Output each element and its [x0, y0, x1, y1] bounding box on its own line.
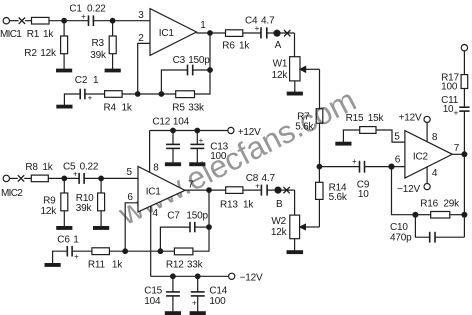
node output IC1a — [208, 31, 213, 36]
svg-text:+: + — [192, 299, 197, 308]
label C5 0.22 — [63, 161, 99, 172]
label C1 0.22 — [69, 3, 106, 14]
wire C9 to pin6 — [365, 166, 405, 168]
label R2 12k — [24, 48, 57, 59]
capacitor C1 — [89, 15, 94, 26]
wire pin4 IC1b — [150, 206, 152, 276]
svg-text:R15: R15 — [346, 113, 364, 124]
wire pin2 — [138, 43, 150, 94]
svg-text:2: 2 — [138, 33, 144, 44]
svg-text:+12V: +12V — [399, 112, 422, 123]
svg-text:R13: R13 — [220, 200, 238, 211]
wire C1 to pin3 — [93, 20, 150, 22]
resistor R13 — [226, 187, 243, 194]
svg-text:1k: 1k — [112, 260, 123, 271]
wire C4 to W1 — [267, 32, 295, 34]
wire pin6 — [125, 203, 138, 251]
wire R6 to C4 — [243, 32, 261, 34]
svg-text:R3: R3 — [92, 38, 105, 49]
resistor R2 — [61, 21, 68, 69]
svg-text:12k: 12k — [40, 48, 57, 59]
ground (R3) — [105, 69, 120, 72]
connector X (MIC1) — [19, 18, 25, 24]
label R9 12k — [40, 195, 57, 217]
svg-text:470p: 470p — [390, 232, 412, 243]
svg-text:7: 7 — [188, 179, 194, 190]
ground (R15) — [336, 142, 351, 145]
svg-text:+: + — [454, 108, 459, 117]
svg-text:MIC2: MIC2 — [1, 188, 23, 199]
wire C10 loop left — [415, 215, 429, 238]
capacitor C9 — [360, 161, 365, 173]
svg-text:R9: R9 — [43, 195, 56, 206]
svg-text:C7: C7 — [167, 210, 180, 221]
svg-text:+: + — [199, 136, 204, 145]
ground (C13) — [190, 163, 205, 166]
node pin6 IC2 — [389, 164, 394, 169]
svg-text:W2: W2 — [271, 216, 286, 227]
wire C8 to W2 — [267, 189, 295, 191]
resistor R11 — [92, 248, 110, 255]
resistor R7 — [316, 109, 323, 124]
svg-text:1: 1 — [73, 235, 79, 246]
op-amp IC1 (second half) — [138, 166, 185, 212]
wire output pin1 — [197, 32, 226, 34]
svg-text:5.6k: 5.6k — [295, 121, 314, 132]
ground (R2) — [57, 69, 72, 72]
wire W1 wiper down — [319, 69, 321, 108]
op-amp IC2 — [405, 131, 452, 178]
label C7 150p — [167, 210, 208, 221]
wire ground to C2 — [64, 94, 80, 105]
terminal +12V (IC2) — [424, 116, 430, 142]
svg-text:39k: 39k — [76, 203, 93, 214]
svg-text:7: 7 — [454, 143, 460, 154]
node A — [274, 30, 280, 36]
wire R14 to W2 wiper — [305, 226, 319, 228]
wire C7 branch — [160, 227, 190, 251]
node R1/R2/C1 — [62, 18, 67, 23]
wire R5 to output — [195, 33, 211, 94]
svg-text:C6: C6 — [57, 235, 70, 246]
wire C10 loop right — [435, 236, 464, 238]
svg-text:1k: 1k — [243, 200, 254, 211]
svg-text:C10: C10 — [390, 222, 408, 233]
output terminal — [461, 45, 467, 75]
wire ground to C6 — [53, 251, 68, 263]
resistor R8 — [31, 175, 48, 182]
svg-text:C3: C3 — [173, 55, 186, 66]
wire R7 to summing node — [319, 123, 321, 166]
svg-text:33k: 33k — [187, 260, 204, 271]
potentiometer W1 — [290, 57, 320, 92]
label C12 104 — [152, 117, 189, 128]
node feedback split — [159, 92, 164, 97]
label R4 1k — [104, 103, 133, 114]
label W1 12k — [272, 59, 289, 81]
ground (W2) — [287, 251, 302, 254]
label C8 4.7 — [246, 173, 276, 184]
ground (W1) — [287, 92, 302, 95]
capacitor C8 — [261, 185, 267, 196]
svg-text:39k: 39k — [90, 50, 107, 61]
svg-text:R5: R5 — [172, 102, 185, 113]
svg-text:R2: R2 — [24, 48, 37, 59]
label R11 1k — [88, 260, 123, 271]
svg-text:+: + — [73, 169, 78, 178]
capacitor C15 — [166, 276, 180, 312]
node feedback right — [462, 212, 467, 217]
wire down to W1 — [294, 33, 296, 57]
resistor R16 — [415, 212, 464, 219]
svg-text:4: 4 — [153, 208, 159, 219]
node feedback left — [413, 212, 418, 217]
node pin6/R11 — [123, 249, 128, 254]
resistor R17 — [461, 75, 468, 108]
svg-text:8: 8 — [153, 163, 159, 174]
capacitor C4 — [261, 27, 267, 38]
node C14 — [195, 274, 200, 279]
svg-text:+: + — [74, 252, 79, 261]
wire X to R8 — [24, 177, 31, 179]
wire C6 to R11 — [72, 250, 92, 252]
resistor R10 — [98, 178, 105, 226]
resistor R12 — [174, 248, 193, 255]
wire R12 to output — [193, 190, 209, 251]
MIC1 input terminal — [3, 18, 19, 24]
potentiometer W2 — [290, 190, 300, 251]
label C9 10 — [357, 179, 370, 200]
label R8 1k — [25, 162, 53, 173]
node output IC2 — [462, 152, 467, 157]
label R17 100 — [441, 72, 459, 92]
resistor R4 — [105, 91, 123, 98]
wire X to R1 — [25, 20, 31, 22]
svg-text:12k: 12k — [272, 70, 289, 81]
svg-text:R12: R12 — [166, 260, 184, 271]
resistor R3 — [109, 21, 116, 69]
wire C5 to pin5 — [84, 177, 138, 179]
svg-text:IC1: IC1 — [159, 28, 175, 39]
wire R4 to node — [122, 93, 176, 95]
terminal -12V (IC2) — [424, 167, 430, 190]
svg-text:1: 1 — [200, 20, 206, 31]
svg-text:C15: C15 — [144, 285, 162, 296]
label R1 1k — [27, 29, 55, 40]
resistor R9 — [61, 178, 68, 226]
svg-text:6: 6 — [127, 192, 133, 203]
label R14 5.6k — [329, 182, 348, 203]
resistor R1 — [32, 17, 50, 24]
label C10 470p — [390, 222, 412, 244]
ground (R10) — [94, 227, 109, 230]
svg-text:W1: W1 — [273, 59, 288, 70]
svg-text:5.6k: 5.6k — [329, 192, 348, 203]
svg-text:R11: R11 — [88, 260, 106, 271]
capacitor C11 — [459, 107, 469, 111]
node C1/R3 — [110, 18, 115, 23]
wire R8 to C5 — [48, 177, 79, 179]
svg-text:MIC1: MIC1 — [0, 29, 22, 40]
svg-text:4.7: 4.7 — [262, 173, 276, 184]
svg-text:12k: 12k — [40, 206, 57, 217]
svg-text:12k: 12k — [271, 227, 288, 238]
svg-text:A: A — [275, 40, 282, 51]
terminal +12V (rail) — [228, 127, 234, 133]
label R12 33k — [166, 260, 204, 271]
ground (R9) — [57, 227, 72, 230]
wire -12V rail — [151, 275, 229, 277]
wire pin8 IC1b — [149, 131, 151, 173]
label R16 29k — [420, 198, 460, 209]
wire R1 to C1 — [49, 20, 89, 22]
svg-text:5: 5 — [394, 132, 400, 143]
svg-text:4.7: 4.7 — [261, 15, 275, 26]
svg-text:R4: R4 — [104, 103, 117, 114]
svg-text:−12V: −12V — [397, 184, 420, 195]
svg-text:+: + — [352, 157, 357, 166]
capacitor C13 — [190, 131, 204, 163]
svg-text:10: 10 — [358, 189, 369, 200]
svg-text:C14: C14 — [209, 285, 227, 296]
node R8/R9/C5 — [62, 176, 67, 181]
MIC2 input terminal — [3, 175, 18, 181]
resistor R6 — [226, 30, 243, 37]
capacitor C10 — [430, 232, 435, 243]
label C15 104 — [144, 285, 162, 307]
wire C2 to R4 — [85, 93, 105, 95]
capacitor C7 — [190, 222, 195, 232]
label R7 5.6k — [295, 111, 314, 132]
svg-text:15k: 15k — [368, 113, 385, 124]
ground (C14) — [190, 312, 205, 315]
wire pin6 feedback down — [392, 167, 416, 215]
node C3 right — [208, 68, 213, 73]
svg-text:1k: 1k — [239, 41, 250, 52]
svg-text:IC2: IC2 — [413, 151, 429, 162]
terminal -12V (rail) — [229, 273, 235, 279]
capacitor C14 — [191, 276, 205, 312]
svg-text:+: + — [81, 12, 86, 21]
svg-text:R1: R1 — [27, 29, 40, 40]
svg-text:C2: C2 — [75, 75, 88, 86]
svg-text:R8: R8 — [25, 162, 38, 173]
svg-text:IC1: IC1 — [146, 186, 162, 197]
watermark www.elecfans.com — [112, 81, 362, 232]
svg-text:6: 6 — [395, 154, 401, 165]
svg-text:B: B — [276, 199, 283, 210]
wire C3 branch — [161, 70, 187, 94]
W2 wiper arrow — [300, 224, 306, 229]
svg-text:+: + — [255, 181, 260, 190]
connector X (MIC2) — [18, 175, 24, 181]
node C5/R10 — [99, 176, 104, 181]
node C13 — [195, 128, 200, 133]
wire C3 to node — [193, 69, 210, 71]
label C11 10 — [441, 95, 459, 115]
svg-text:3: 3 — [138, 10, 144, 21]
svg-text:+: + — [255, 24, 260, 33]
wire output pin7 IC1b — [185, 189, 226, 191]
svg-text:100: 100 — [210, 151, 227, 162]
summing node — [317, 164, 322, 169]
label C13 100 — [210, 141, 228, 162]
capacitor C6 — [67, 246, 72, 257]
svg-text:4: 4 — [432, 168, 438, 179]
svg-text:+: + — [88, 94, 93, 103]
resistor R14 — [316, 167, 323, 227]
wire C7 to node — [195, 226, 209, 228]
op-amp IC1 (first half) — [150, 9, 197, 56]
svg-text:100: 100 — [441, 81, 458, 92]
svg-text:1: 1 — [93, 75, 99, 86]
svg-text:8: 8 — [432, 132, 438, 143]
node C15 — [171, 274, 176, 279]
svg-text:29k: 29k — [443, 198, 460, 209]
node B — [275, 187, 281, 193]
svg-text:100: 100 — [209, 296, 226, 307]
svg-text:+12V: +12V — [238, 127, 261, 138]
label C6 1 — [57, 235, 79, 246]
ground (C2) — [57, 105, 72, 108]
svg-text:104: 104 — [173, 117, 190, 128]
svg-text:C12: C12 — [152, 117, 170, 128]
label C2 1 — [75, 75, 99, 86]
wire +12V rail — [150, 130, 228, 132]
svg-text:0.22: 0.22 — [80, 161, 99, 172]
label W2 12k — [271, 216, 288, 238]
svg-text:−12V: −12V — [240, 272, 263, 283]
svg-text:R16: R16 — [420, 198, 438, 209]
svg-text:1k: 1k — [42, 162, 53, 173]
label R13 1k — [220, 200, 254, 211]
label C14 100 — [209, 285, 227, 307]
capacitor C2 — [80, 89, 85, 100]
svg-text:1k: 1k — [43, 29, 54, 40]
connector X (A) — [284, 30, 290, 36]
wire node to C9 — [319, 166, 359, 168]
wire output column — [463, 111, 465, 237]
wire R11 to node — [109, 250, 174, 252]
node feedback split 2 — [158, 249, 163, 254]
capacitor C5 — [79, 173, 84, 184]
node pin2/R4 — [135, 92, 140, 97]
capacitor C12 — [166, 131, 180, 163]
ground (C15) — [165, 312, 180, 315]
node C12 — [171, 128, 176, 133]
node output IC1b — [207, 188, 212, 193]
svg-text:33k: 33k — [188, 102, 205, 113]
label R15 15k — [346, 113, 385, 124]
resistor R5 — [176, 91, 195, 98]
svg-text:1k: 1k — [122, 103, 133, 114]
label R6 1k — [222, 41, 250, 52]
ground (C12) — [166, 163, 181, 166]
wire R13 to C8 — [243, 189, 262, 191]
label R10 39k — [76, 193, 94, 214]
connector X (B) — [283, 187, 289, 193]
svg-text:150p: 150p — [186, 210, 208, 221]
svg-text:0.22: 0.22 — [87, 3, 106, 14]
svg-text:10: 10 — [443, 104, 454, 115]
label C3 150p — [173, 55, 211, 66]
node C7 right — [207, 225, 212, 230]
resistor R15 — [343, 127, 405, 143]
label R5 33k — [172, 102, 205, 113]
svg-text:150p: 150p — [188, 55, 210, 66]
ground (C6) — [45, 264, 60, 267]
label C4 4.7 — [245, 15, 275, 26]
svg-text:104: 104 — [144, 296, 161, 307]
svg-text:R6: R6 — [222, 41, 235, 52]
svg-text:5: 5 — [127, 167, 133, 178]
capacitor C3 — [188, 65, 193, 76]
wire output pin7 — [452, 153, 464, 155]
label R3 39k — [90, 38, 107, 61]
